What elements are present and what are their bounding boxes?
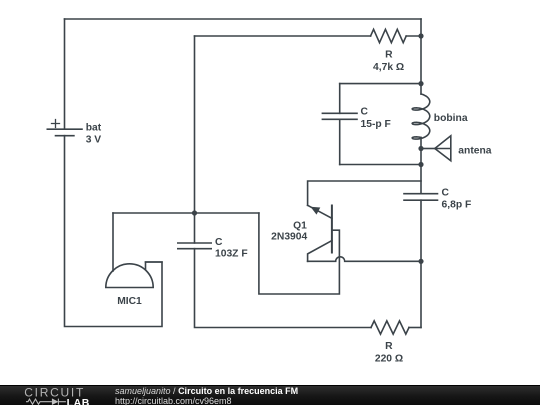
svg-text:R: R	[385, 49, 393, 60]
node junction C103Z top	[192, 210, 197, 215]
wire R220 to right column	[409, 327, 421, 329]
wire left column x194.5 lower to R220	[195, 249, 372, 328]
wire second rail y36	[195, 35, 371, 37]
svg-text:bobina: bobina	[434, 113, 468, 124]
svg-text:C: C	[442, 187, 450, 198]
wire top rail from battery to right column	[65, 18, 422, 20]
footer text	[115, 386, 298, 406]
battery bat	[47, 120, 82, 136]
node junction at R 4.7k output	[418, 33, 423, 38]
svg-text:Q1: Q1	[293, 220, 307, 231]
wire base branch down and right	[259, 213, 340, 294]
resistor R 4.7k	[371, 29, 407, 42]
wire resistor to right column	[406, 35, 421, 37]
node junction LC top	[418, 81, 423, 86]
node junction LC bottom	[418, 162, 423, 167]
antenna lead wire	[421, 148, 435, 150]
node junction antenna	[418, 146, 423, 151]
resistor R 220	[371, 321, 409, 334]
svg-text:3 V: 3 V	[86, 135, 102, 146]
inductor bobina	[412, 94, 430, 139]
microphone MIC1 right lead notch	[146, 262, 163, 270]
svg-text:15-p F: 15-p F	[361, 119, 391, 130]
svg-text:C: C	[361, 107, 369, 118]
wire LC left branch lower	[339, 119, 341, 164]
svg-text:220 Ω: 220 Ω	[375, 354, 403, 365]
microphone MIC1 left lead	[112, 213, 114, 271]
wire LC tank bottom rail	[340, 164, 421, 166]
capacitor C 103Z	[178, 243, 211, 249]
wire collector rail y261 with hump over base wire	[308, 257, 421, 262]
wire right column lower segment	[420, 200, 422, 327]
wire LC tank top rail	[340, 83, 421, 85]
wire LC left branch upper	[339, 84, 341, 114]
battery bat bottom lead to mic	[65, 136, 163, 327]
svg-text:R: R	[385, 341, 393, 352]
wire right column mid segment	[420, 138, 422, 194]
svg-text:antena: antena	[458, 145, 491, 156]
wire mid rail y213 mic to base branch	[113, 212, 259, 214]
node junction collector	[418, 259, 423, 264]
wire right column upper segment	[420, 19, 422, 94]
transistor Q1 emitter wire	[308, 181, 421, 205]
svg-text:MIC1: MIC1	[117, 296, 142, 307]
transistor Q1 2N3904	[308, 205, 332, 261]
CircuitLab logo	[24, 385, 104, 407]
svg-text:6,8p F: 6,8p F	[442, 200, 472, 211]
svg-text:bat: bat	[86, 122, 102, 133]
svg-text:C: C	[215, 237, 223, 248]
svg-text:4,7k Ω: 4,7k Ω	[373, 62, 404, 73]
svg-text:LAB: LAB	[67, 397, 90, 407]
microphone MIC1 dome	[106, 264, 153, 288]
wire left column x194.5 upper	[194, 36, 196, 243]
svg-text:103Z F: 103Z F	[215, 249, 248, 260]
capacitor C 6.8p	[404, 194, 438, 201]
battery bat top lead	[64, 19, 66, 129]
footer bar	[0, 385, 540, 405]
antenna	[435, 136, 451, 161]
svg-text:2N3904: 2N3904	[271, 231, 307, 242]
capacitor C 15-p	[322, 113, 357, 119]
